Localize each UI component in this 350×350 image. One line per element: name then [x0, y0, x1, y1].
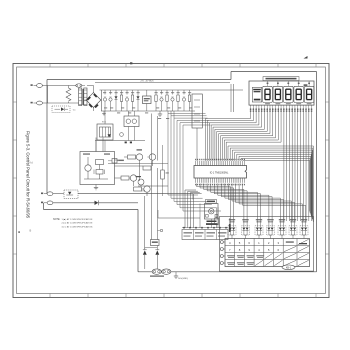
- capacitor C4: [160, 90, 163, 111]
- resistor R11: [215, 208, 219, 229]
- diode D7: [155, 246, 159, 270]
- resistor R12: [151, 240, 160, 246]
- svg-text:NOTE:: NOTE:: [53, 218, 61, 221]
- label +5V: [141, 191, 145, 193]
- note text: [53, 218, 93, 229]
- wire bus: IC left pins down: [185, 190, 202, 228]
- voltage regulator IC-3: [143, 90, 152, 111]
- svg-text:Figure 5-3. Control Panel Cir: Figure 5-3. Control Panel Circuit for R-…: [25, 131, 30, 219]
- 7-segment digit 1: [263, 81, 273, 104]
- resistor R3: [155, 90, 157, 111]
- resistor R2: [131, 90, 133, 111]
- resistor R9: [115, 176, 130, 180]
- display legend cell: [252, 87, 261, 102]
- resistor R13: [161, 145, 169, 196]
- svg-text:IC-1 TMS1000NL: IC-1 TMS1000NL: [210, 171, 229, 174]
- resistor R14: [108, 159, 124, 164]
- resistor R10: [134, 187, 142, 191]
- AM PM mark: [304, 84, 308, 85]
- wire: [140, 161, 158, 249]
- key diode pairs: [228, 222, 308, 239]
- capacitor C5: [120, 133, 124, 137]
- thermal fuse: [52, 106, 70, 113]
- wire: [42, 86, 75, 104]
- wire: [115, 160, 144, 166]
- caption: figure title: [25, 131, 30, 219]
- wire: [53, 202, 138, 204]
- ground: [94, 185, 98, 190]
- resistor R7: [124, 155, 136, 159]
- wire: [105, 111, 134, 124]
- capacitor C3: [125, 90, 128, 111]
- buzzer BZ: [200, 200, 218, 229]
- wire: ground rail: [101, 110, 195, 112]
- transistor Q5: [138, 179, 168, 186]
- resistor R5: [177, 90, 179, 111]
- transformer T1: [72, 88, 87, 112]
- diode D5: [95, 200, 99, 205]
- resistor R1: [120, 90, 122, 111]
- ground: [174, 272, 188, 280]
- capacitor C2: [109, 90, 112, 111]
- transistor Q3: [129, 175, 137, 186]
- component value labels: [103, 92, 192, 119]
- svg-text:B: B: [30, 229, 32, 233]
- ground: [158, 111, 162, 116]
- zener diode D2: [115, 90, 118, 111]
- display unit box: [249, 81, 314, 105]
- connector CN-B pin2: [41, 201, 53, 205]
- wire: VCC rail: [100, 89, 244, 91]
- wire: [42, 102, 78, 104]
- capacitor C9: [229, 218, 231, 232]
- display unit label: [263, 77, 299, 81]
- bridge rectifier D1: [85, 86, 102, 112]
- capacitor C1: [103, 90, 106, 111]
- key matrix KB-1: [225, 239, 310, 267]
- junction node: [158, 229, 163, 232]
- transistor Q2: [148, 154, 156, 166]
- wire bus: display column feeds: [284, 108, 312, 221]
- wire bus: IC right to edge rails: [228, 146, 313, 222]
- wire: [158, 210, 200, 218]
- key switch labels: [229, 219, 307, 222]
- zener diode D3: [137, 90, 140, 111]
- IC-1 top pins: [195, 159, 245, 166]
- wire: [53, 194, 193, 200]
- oscillator sub-circuit: [80, 152, 115, 185]
- connector CN-E pin2: [31, 101, 43, 105]
- transistor Q4: [142, 186, 151, 196]
- 7-segment digit 4: [294, 81, 304, 104]
- svg-text:3.(○): AT 1.5kW SPECIFICATION.: 3.(○): AT 1.5kW SPECIFICATION.: [62, 226, 94, 229]
- varistor RV1: [66, 86, 71, 104]
- svg-text:+5V +5V BUS: +5V +5V BUS: [140, 81, 154, 83]
- line filter box: [192, 94, 202, 128]
- resistor R8: [143, 166, 151, 170]
- transistor Q1: [136, 154, 143, 166]
- ground: [102, 111, 106, 116]
- fuse F1: [76, 84, 85, 87]
- wire bus: IC-1 to key matrix: [197, 184, 306, 222]
- wire bus: display to IC-1: [206, 108, 282, 161]
- 7-segment digit 3: [284, 81, 294, 104]
- capacitor C6: [171, 90, 174, 111]
- 7-segment digit 5: [304, 81, 314, 104]
- main circuit board outline: [44, 72, 317, 272]
- wire: [197, 84, 234, 161]
- keyboard unit boundary: [220, 217, 314, 272]
- thermal cutout: [64, 190, 78, 199]
- driver IC-2: [124, 116, 139, 141]
- resistor R6: [188, 90, 190, 111]
- diode D6: [143, 248, 147, 269]
- label Q-1: [137, 149, 143, 150]
- switch label table: [182, 230, 228, 240]
- connector CN-E pin1: [31, 84, 43, 88]
- svg-text:1.(■): AT 1.2kW SPECIFICATION: 1.(■): AT 1.2kW SPECIFICATION: [62, 218, 93, 221]
- wire: +5V bus: [95, 81, 230, 83]
- svg-text:KB-1: KB-1: [286, 266, 292, 269]
- svg-text:2.(□): AT 1.0kW SPECIFICATION: 2.(□): AT 1.0kW SPECIFICATION: [62, 222, 93, 225]
- wire: [108, 163, 168, 165]
- display pin name rows: [250, 105, 312, 112]
- wire: [145, 247, 158, 249]
- svg-text:N-5(GND): N-5(GND): [178, 278, 188, 280]
- wire junction dots: [182, 227, 228, 229]
- row connector pins: [220, 241, 225, 265]
- wire bus: left feeders: [152, 114, 222, 212]
- IC-1 bottom pins: [195, 178, 245, 185]
- label KB-1: [282, 265, 295, 270]
- 7-segment digit 2: [273, 81, 283, 104]
- connector CN-A: [150, 269, 171, 277]
- wire: [95, 141, 145, 152]
- resistor R4: [166, 90, 168, 111]
- wire: [168, 111, 174, 118]
- capacitor C7: [182, 90, 185, 111]
- connector CN-B pin1: [41, 192, 53, 196]
- wire: [96, 138, 103, 152]
- microcontroller IC-1: [194, 166, 247, 179]
- relay RY-1: [97, 122, 113, 140]
- label Q-2: [136, 176, 142, 177]
